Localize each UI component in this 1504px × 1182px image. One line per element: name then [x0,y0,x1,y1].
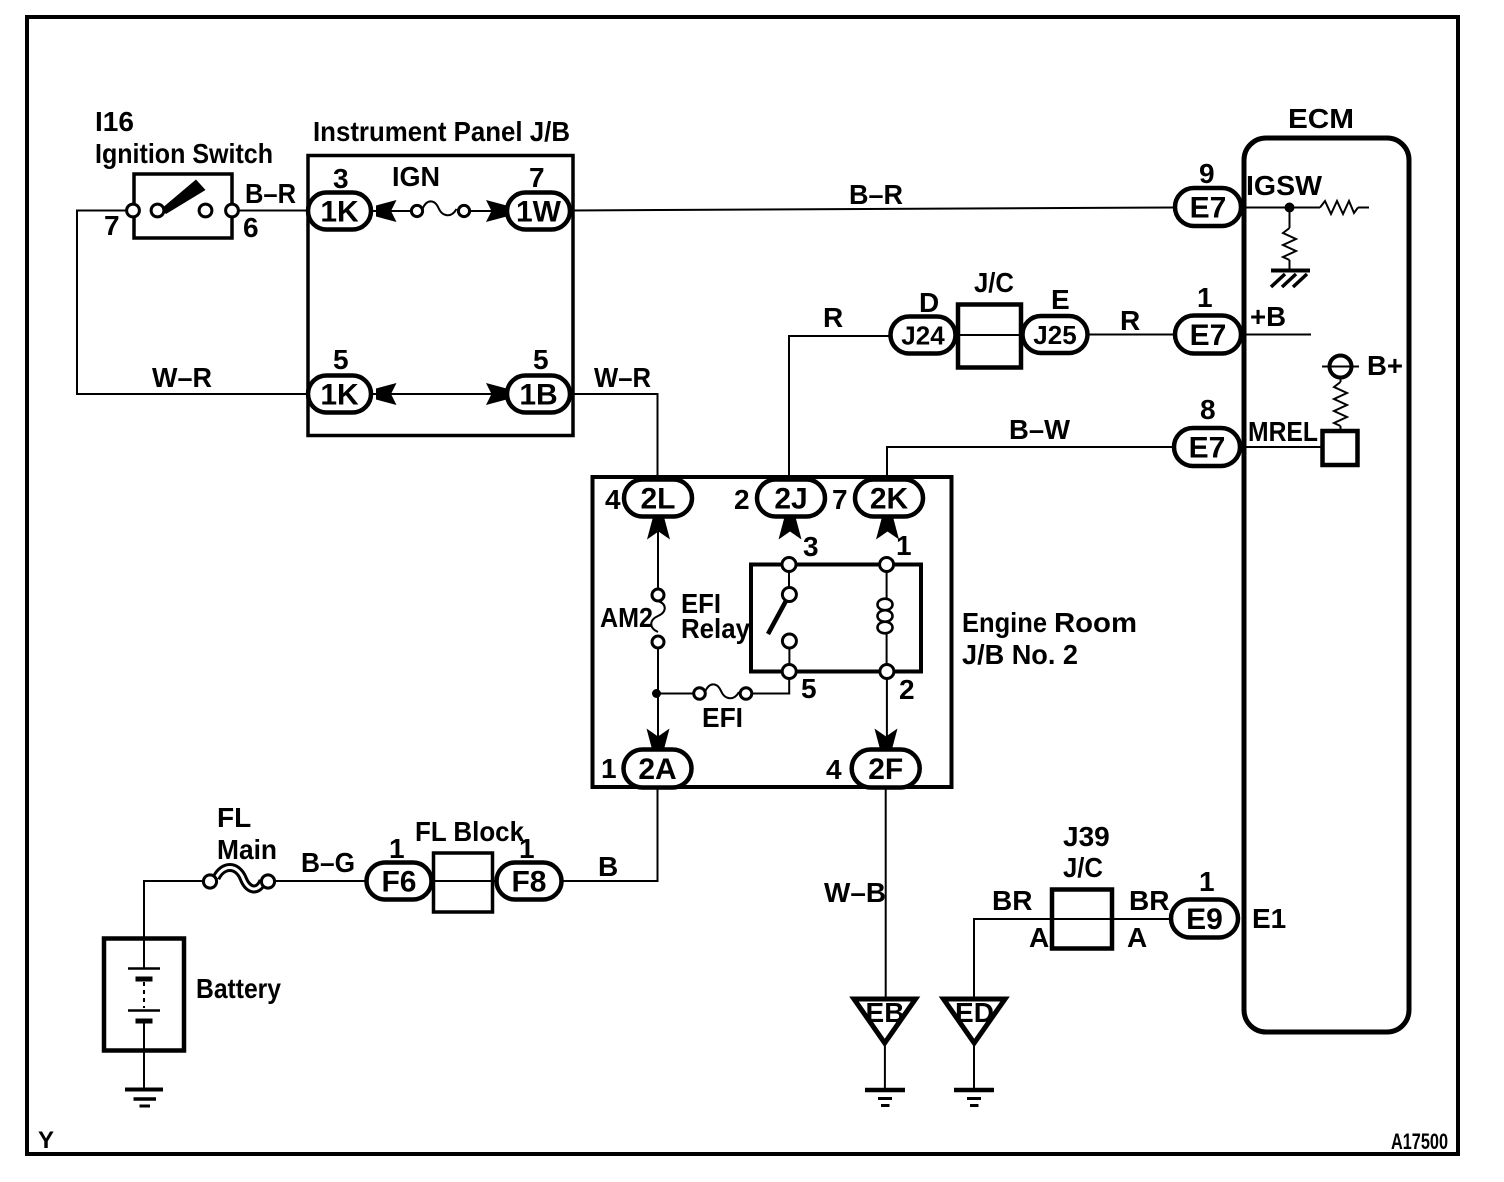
Instrument Panel J/B box [308,156,573,436]
svg-text:2F: 2F [868,753,903,786]
B+ resistor [1340,378,1342,432]
IGSW horizontal resistor [1320,201,1358,214]
arrow right lower row [486,383,507,405]
E7 connector pin9 [1175,188,1241,226]
connector 1W pin7 [507,193,570,230]
svg-text:J/C: J/C [1063,852,1103,883]
junction dot AM2/EFI [652,689,661,698]
svg-text:J/B No. 2: J/B No. 2 [962,639,1078,670]
up arrow below 2L [647,517,670,540]
svg-text:Instrument Panel J/B: Instrument Panel J/B [313,116,570,147]
svg-text:1W: 1W [516,196,562,229]
connector 1K pin3 [308,193,371,230]
IGN fuse [423,201,457,215]
svg-text:W–R: W–R [152,362,212,393]
wire B-G / B row from FL Main through FL block to 2A [275,787,658,881]
svg-text:A: A [1127,922,1147,953]
svg-text:Battery: Battery [196,973,281,1004]
battery internal plates [143,940,145,968]
Engine Room J/B No.2 box [593,477,952,787]
svg-text:MREL: MREL [1248,416,1318,447]
IGSW vertical wire [1289,208,1291,271]
wire B-W from 2K to E7 pin8 [887,447,1174,480]
svg-text:B–W: B–W [1009,414,1071,445]
svg-text:1K: 1K [320,379,359,412]
svg-text:A: A [1029,922,1049,953]
wire B-R long from 1W to ECM E7 pin9 [570,208,1175,211]
svg-text:9: 9 [1199,158,1215,189]
svg-text:E1: E1 [1252,903,1286,934]
connector 1K pin5 [308,376,371,413]
svg-text:E7: E7 [1189,432,1226,465]
svg-text:J39: J39 [1063,821,1110,852]
svg-text:B–R: B–R [245,178,296,209]
svg-text:W–B: W–B [824,877,886,908]
wire W-B from 2F down to EB ground triangle [885,787,887,997]
svg-text:2J: 2J [774,483,807,516]
svg-text:E: E [1051,284,1070,315]
svg-text:4: 4 [605,484,621,515]
svg-text:1: 1 [601,753,617,784]
J39 J/C box [1052,890,1112,949]
svg-text:5: 5 [801,673,817,704]
wire inside Instrument Panel J/B upper (IGN fuse row) [371,210,507,212]
battery ground [125,1088,163,1092]
FL block box [434,853,493,912]
relay pin 2 circle [880,665,894,679]
battery box [104,939,184,1051]
svg-text:6: 6 [243,212,259,243]
wire battery negative to ground [143,1050,145,1088]
connector 2L pin4 [624,480,692,517]
MREL driver square [1323,431,1358,465]
svg-text:5: 5 [533,344,549,375]
wire ED triangle stem [973,1045,975,1089]
svg-text:1B: 1B [519,379,557,412]
IGSW chassis ground [1271,269,1310,273]
IGSW junction dot [1285,203,1295,213]
wire R from 2J up to J24, through J/C to E7 pin1 [789,335,1175,481]
+B internal wire [1246,334,1311,336]
up arrow below 2K [876,517,899,540]
svg-text:R: R [823,302,843,333]
svg-text:IGN: IGN [392,161,440,192]
connector 2K pin7 [855,480,923,517]
AM2 fuse [651,601,665,632]
svg-text:1: 1 [896,530,912,561]
svg-text:7: 7 [104,210,120,241]
svg-text:F8: F8 [511,866,546,899]
relay coil loops [878,599,893,611]
wire W-R from 1B to 2L [570,394,658,480]
svg-text:IGSW: IGSW [1246,170,1323,201]
svg-text:D: D [919,287,939,318]
connector F8 [497,863,562,900]
wire ignition switch pin7 to 1K lower [77,211,308,395]
E7 connector pin8 [1174,428,1240,466]
svg-text:Ignition Switch: Ignition Switch [95,138,273,169]
svg-text:ECM: ECM [1288,103,1354,134]
up arrow below 2J [779,517,802,540]
B+ terminal circle [1330,356,1352,378]
EFI fuse [705,684,739,698]
connector 1B pin5 [507,376,570,413]
svg-text:BR: BR [1129,885,1169,916]
svg-text:Main: Main [217,834,277,865]
wire EB triangle stem [884,1045,886,1089]
svg-text:AM2: AM2 [600,602,653,633]
svg-text:2: 2 [899,674,915,705]
connector J25 [1023,316,1088,353]
wire inside Instrument Panel J/B lower [371,393,507,395]
E7 connector pin1 [1175,316,1241,354]
svg-text:7: 7 [832,484,848,515]
svg-text:3: 3 [333,163,349,194]
relay switch lower contact [782,634,796,648]
arrow left upper row [376,200,397,222]
EFI relay box [751,565,921,672]
svg-text:EFI: EFI [702,702,743,733]
svg-text:E9: E9 [1186,903,1223,936]
svg-text:I16: I16 [95,106,134,137]
relay lever [768,599,787,634]
svg-text:Room: Room [1054,607,1137,638]
relay pin 5 circle [782,665,796,679]
svg-text:F6: F6 [381,866,416,899]
svg-text:J25: J25 [1033,320,1076,350]
ground triangle EB [854,999,916,1043]
J/C junction connector box [958,305,1021,368]
svg-text:Relay: Relay [681,613,750,644]
svg-text:3: 3 [803,531,819,562]
connector 2A pin1 [624,750,692,788]
svg-text:Engine: Engine [962,607,1047,638]
connector 2J pin2 [757,480,825,517]
svg-text:2L: 2L [640,483,675,516]
svg-text:7: 7 [529,162,545,193]
svg-text:1: 1 [1197,282,1213,313]
relay pin 3 circle [782,558,796,572]
svg-text:1K: 1K [320,196,359,229]
svg-text:+B: +B [1250,301,1286,332]
down arrow above 2F [875,729,898,752]
svg-text:FL Block: FL Block [415,816,524,847]
svg-text:2K: 2K [870,483,909,516]
svg-text:B–G: B–G [301,847,355,878]
svg-text:FL: FL [217,802,251,833]
connector F6 [367,863,432,900]
svg-text:5: 5 [333,344,349,375]
svg-text:W–R: W–R [594,362,651,393]
relay contact wires [658,516,887,751]
relay switch upper contact [782,588,796,602]
svg-text:8: 8 [1200,394,1216,425]
svg-text:J/C: J/C [974,267,1014,298]
IGSW vertical resistor [1283,228,1296,260]
svg-text:BR: BR [992,885,1032,916]
wire ED triangle up and right through J39 to E9 [974,919,1238,997]
svg-text:E7: E7 [1190,192,1227,225]
svg-text:ED: ED [955,997,994,1028]
ignition switch I16 box [134,174,232,238]
E9 connector pin1 [1171,900,1238,938]
arrow left lower row [376,383,397,405]
connector J24 [891,317,956,354]
svg-text:E7: E7 [1190,319,1227,352]
MREL internal wire [1246,446,1322,448]
svg-text:EB: EB [866,997,905,1028]
svg-text:2A: 2A [638,753,676,786]
IGSW internal wire [1246,207,1369,209]
ignition switch lever [161,180,206,215]
EB ground bars [865,1088,905,1093]
relay pin 1 circle [880,558,894,572]
svg-text:1: 1 [519,833,535,864]
ECM box [1244,138,1409,1032]
svg-text:R: R [1120,305,1140,336]
ED ground bars [954,1088,994,1093]
wire junction to EFI fuse [657,693,695,695]
down arrow above 2A [647,729,670,752]
svg-text:B–R: B–R [849,179,903,210]
ground triangle ED [944,999,1006,1043]
connector 2F pin4 [852,750,920,788]
svg-text:Y: Y [38,1127,54,1154]
svg-text:B: B [598,851,618,882]
wire EFI fuse to relay pin5 [752,679,789,694]
svg-text:J24: J24 [901,321,945,351]
wire battery to FL Main fuse [144,881,204,940]
wire ignition switch pin6 to 1K upper [238,210,308,212]
svg-text:A17500: A17500 [1391,1129,1448,1154]
svg-text:4: 4 [826,754,842,785]
svg-text:1: 1 [389,833,405,864]
FL Main fusible link [216,868,263,889]
arrow right upper row [486,200,507,222]
svg-text:2: 2 [734,484,750,515]
svg-text:B+: B+ [1367,350,1403,381]
svg-text:1: 1 [1199,866,1215,897]
ignition switch contact circles [127,204,140,217]
